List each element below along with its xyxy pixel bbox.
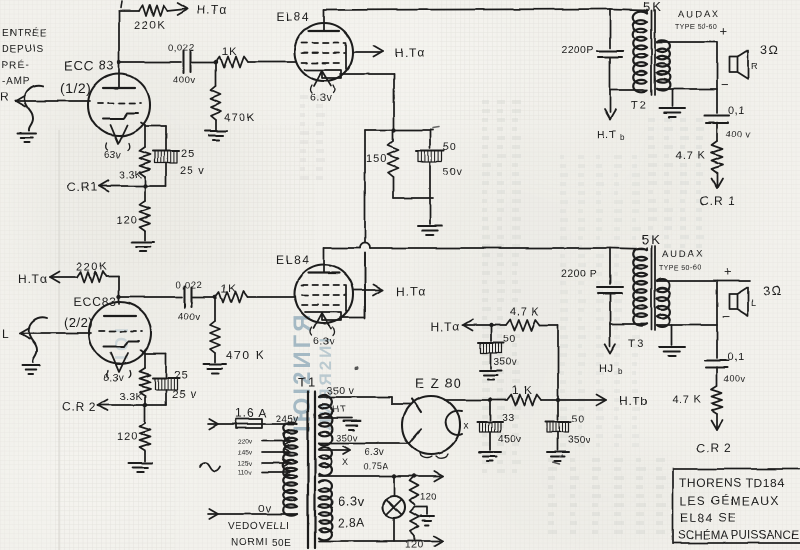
svg-text:6.3v: 6.3v xyxy=(310,92,332,104)
svg-text:T1: T1 xyxy=(298,375,317,390)
svg-text:-AMP: -AMP xyxy=(2,76,30,87)
svg-text:3.3K: 3.3K xyxy=(119,169,142,181)
svg-text:470 K: 470 K xyxy=(226,348,265,362)
svg-text:C.R 1: C.R 1 xyxy=(700,194,736,208)
svg-text:PRÉ-: PRÉ- xyxy=(2,58,29,71)
svg-text:b: b xyxy=(620,133,625,142)
svg-text:220v: 220v xyxy=(238,439,253,446)
svg-text:50v: 50v xyxy=(443,166,463,178)
svg-text:VEDOVELLI: VEDOVELLI xyxy=(228,521,289,532)
svg-text:25: 25 xyxy=(181,148,195,160)
svg-text:220K: 220K xyxy=(76,261,108,273)
svg-text:400v: 400v xyxy=(173,75,196,86)
svg-text:400 v: 400 v xyxy=(726,129,751,139)
svg-text:T3: T3 xyxy=(628,338,645,350)
svg-text:HT: HT xyxy=(332,404,347,415)
svg-text:25 v: 25 v xyxy=(172,389,197,401)
svg-text:H.Tα: H.Tα xyxy=(396,285,426,299)
svg-text:0,1: 0,1 xyxy=(728,105,745,117)
svg-text:ECC 83: ECC 83 xyxy=(64,58,114,73)
svg-text:H.Tα: H.Tα xyxy=(197,3,227,17)
svg-text:TYPE 50-60: TYPE 50-60 xyxy=(659,265,701,272)
svg-text:DEPUIS: DEPUIS xyxy=(2,44,44,55)
svg-text:245v: 245v xyxy=(276,414,299,425)
svg-text:150: 150 xyxy=(366,153,387,165)
svg-text:145v: 145v xyxy=(238,450,253,457)
svg-text:50: 50 xyxy=(443,141,457,153)
svg-text:x: x xyxy=(464,421,469,432)
svg-text:120: 120 xyxy=(420,492,437,503)
svg-text:0.75A: 0.75A xyxy=(364,461,389,471)
svg-text:110v: 110v xyxy=(238,470,252,477)
svg-text:EL84: EL84 xyxy=(276,10,310,24)
svg-text:2.8A: 2.8A xyxy=(338,516,365,530)
svg-text:350v: 350v xyxy=(494,357,517,368)
svg-text:L: L xyxy=(751,298,757,308)
svg-text:AUDAX: AUDAX xyxy=(662,249,704,260)
svg-text:5K: 5K xyxy=(643,0,663,14)
svg-text:350 v: 350 v xyxy=(327,385,355,397)
svg-text:25: 25 xyxy=(174,370,188,382)
svg-text:H.T: H.T xyxy=(597,129,617,141)
svg-text:1K: 1K xyxy=(222,46,237,58)
svg-text:25 v: 25 v xyxy=(180,165,205,177)
svg-text:E Z 80: E Z 80 xyxy=(415,376,462,391)
svg-text:R: R xyxy=(0,90,10,104)
svg-text:6.3v: 6.3v xyxy=(338,494,365,509)
svg-text:SCHÉMA PUISSANCE: SCHÉMA PUISSANCE xyxy=(678,529,800,542)
svg-text:350v: 350v xyxy=(568,435,591,446)
svg-text:AUDAX: AUDAX xyxy=(678,9,720,20)
svg-text:0,022: 0,022 xyxy=(176,280,202,291)
svg-text:220K: 220K xyxy=(134,20,166,32)
svg-text:2200P: 2200P xyxy=(561,44,594,56)
svg-text:50E: 50E xyxy=(272,538,291,549)
svg-text:b: b xyxy=(618,367,623,376)
svg-text:C.R 2: C.R 2 xyxy=(62,400,97,414)
svg-text:450v: 450v xyxy=(498,434,521,445)
svg-text:LES GÉMEAUX: LES GÉMEAUX xyxy=(680,493,779,508)
svg-text:50: 50 xyxy=(571,413,585,425)
svg-text:H.Tα: H.Tα xyxy=(395,46,425,60)
svg-text:C.R 2: C.R 2 xyxy=(696,441,732,455)
svg-text:50: 50 xyxy=(503,333,516,345)
svg-text:X: X xyxy=(342,457,349,467)
svg-text:1 K: 1 K xyxy=(512,383,533,397)
svg-text:+: + xyxy=(724,264,733,279)
svg-text:H.Tb: H.Tb xyxy=(619,394,648,408)
svg-text:6.3v: 6.3v xyxy=(364,447,384,458)
svg-text:ECC83: ECC83 xyxy=(74,295,117,309)
svg-text:H.Tα: H.Tα xyxy=(431,320,460,334)
svg-text:+: + xyxy=(720,23,729,38)
svg-text:EL84: EL84 xyxy=(276,253,310,267)
svg-text:EL84 SE: EL84 SE xyxy=(680,511,737,525)
svg-text:L: L xyxy=(2,327,10,341)
svg-text:−: − xyxy=(721,77,730,92)
svg-text:3.3K: 3.3K xyxy=(120,391,143,403)
svg-text:−: − xyxy=(722,309,731,324)
svg-text:0,1: 0,1 xyxy=(728,351,745,363)
svg-text:(1/2): (1/2) xyxy=(60,80,91,96)
svg-text:H.Tα: H.Tα xyxy=(18,272,48,286)
svg-text:1.6 A: 1.6 A xyxy=(235,406,267,420)
svg-text:HJ: HJ xyxy=(599,363,614,375)
svg-text:6.3v: 6.3v xyxy=(104,373,124,384)
svg-text:0,022: 0,022 xyxy=(168,43,194,54)
svg-text:5K: 5K xyxy=(642,232,662,247)
svg-text:120: 120 xyxy=(117,431,138,443)
svg-text:NORMI: NORMI xyxy=(231,537,268,548)
svg-text:120: 120 xyxy=(116,215,137,227)
svg-text:4.7 K: 4.7 K xyxy=(510,306,540,318)
svg-text:TYPE 50-60: TYPE 50-60 xyxy=(675,24,717,31)
svg-text:IOI: IOI xyxy=(112,324,132,360)
svg-text:3Ω: 3Ω xyxy=(763,284,782,298)
svg-text:33: 33 xyxy=(502,412,515,424)
svg-text:400v: 400v xyxy=(724,374,746,384)
svg-text:400v: 400v xyxy=(178,312,201,323)
svg-text:C.R1: C.R1 xyxy=(67,180,98,194)
svg-text:470K: 470K xyxy=(224,112,256,124)
svg-text:4.7 K: 4.7 K xyxy=(672,394,702,406)
svg-text:125v: 125v xyxy=(238,461,253,468)
svg-text:R: R xyxy=(751,61,758,71)
svg-text:2200 P: 2200 P xyxy=(561,268,597,280)
svg-text:3Ω: 3Ω xyxy=(760,43,779,57)
svg-text:63v: 63v xyxy=(104,150,121,161)
svg-text:ENTRÉE: ENTRÉE xyxy=(2,26,47,39)
svg-text:T2: T2 xyxy=(631,100,648,112)
svg-text:THORENS TD184: THORENS TD184 xyxy=(679,476,785,490)
svg-text:4.7 K: 4.7 K xyxy=(676,150,706,162)
svg-text:6.3v: 6.3v xyxy=(313,335,335,347)
